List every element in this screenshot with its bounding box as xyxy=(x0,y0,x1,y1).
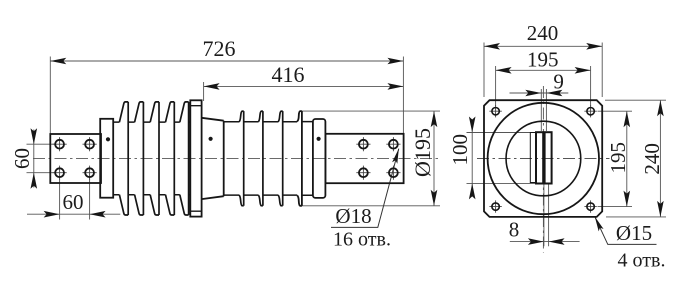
wire: 726 dimension line xyxy=(50,60,403,62)
wire: horizontal centerline (right view) xyxy=(477,158,610,160)
node: hole crosses left pad xyxy=(53,137,97,180)
node: arrows 195 right xyxy=(624,111,631,206)
wire: extension line right of 726/416 dims xyxy=(402,57,404,134)
svg-text:60: 60 xyxy=(10,148,34,169)
node: corner holes dia15 xyxy=(492,108,499,115)
resistor: right terminal pad (left view) xyxy=(325,134,403,183)
wire: horizontal 60 dimension line xyxy=(27,213,120,215)
svg-text:195: 195 xyxy=(527,48,559,72)
capacitor: shed L5 xyxy=(180,102,189,215)
node: hole circles left pad xyxy=(55,140,64,149)
wire: extension lines 9 dim xyxy=(541,89,546,131)
wire: extension line bottom of dia195 (left view) xyxy=(302,205,440,207)
svg-text:16 отв.: 16 отв. xyxy=(333,228,391,250)
svg-text:4 отв.: 4 отв. xyxy=(618,249,666,271)
capacitor: end disc dia195 xyxy=(297,111,302,206)
capacitor: shed L3 xyxy=(150,102,159,215)
wire: main centerline of bushing (left view) xyxy=(33,157,438,159)
wire: 195 top dimension line xyxy=(496,69,591,71)
node: arrow 416 right xyxy=(387,83,403,90)
wire: 240 top dimension line xyxy=(484,45,602,47)
svg-text:8: 8 xyxy=(509,217,520,241)
label: dia195 rotated xyxy=(410,128,435,177)
wire: 240 right dimension line xyxy=(659,100,661,217)
node: arrows 8 dim xyxy=(528,238,565,245)
capacitor: shed R3 xyxy=(278,111,283,206)
svg-text:100: 100 xyxy=(448,134,472,166)
wire: 8 dimension line xyxy=(510,241,580,243)
node: hole crosses right pad xyxy=(356,137,400,180)
resistor: bus bar left lamination xyxy=(536,132,543,183)
svg-text:726: 726 xyxy=(203,36,236,61)
capacitor: shed L2 xyxy=(135,102,144,215)
node: arrows 9 dim xyxy=(525,90,562,97)
wire: extension lines 100 dim xyxy=(467,133,537,184)
node: arrow 726 left xyxy=(50,58,66,65)
node: arrows 240 right xyxy=(657,100,664,217)
wire: extension line top of dia195 (left view) xyxy=(302,110,440,112)
node: arrow 416 left xyxy=(204,83,220,90)
wire: extension lines 195 top xyxy=(496,66,591,106)
resistor: thin pad behind bus bar xyxy=(530,133,536,183)
wire: core lines of right shed section xyxy=(224,122,313,196)
node: hole circles right pad xyxy=(359,140,368,149)
capacitor: shed R2 xyxy=(258,111,263,206)
svg-text:60: 60 xyxy=(63,190,84,214)
capacitor: outer flange circle xyxy=(488,103,599,214)
transistor: mounting flange xyxy=(190,100,201,216)
label: 100 rotated xyxy=(448,134,472,166)
capacitor: right collar xyxy=(313,119,326,198)
label: 240 right rotated xyxy=(640,143,664,175)
wire: vertical centerline (right view) xyxy=(542,86,544,253)
node: arrows 240 top xyxy=(484,43,602,50)
capacitor: left collar of insulator xyxy=(100,119,113,198)
svg-text:Ø18: Ø18 xyxy=(335,204,371,228)
svg-text:240: 240 xyxy=(527,21,559,45)
wire: vertical 60 dimension line xyxy=(33,130,35,188)
svg-text:195: 195 xyxy=(606,142,630,174)
wire: extension lines 8 dim xyxy=(544,184,549,246)
wire: 195 right dimension line xyxy=(626,111,628,206)
node: corner hole crosses xyxy=(489,105,596,213)
capacitor: shed L4 xyxy=(166,102,175,215)
label: 195 right rotated xyxy=(606,142,630,174)
node: arrow 726 right xyxy=(387,58,403,65)
svg-text:240: 240 xyxy=(640,143,664,175)
wire: extension lines 240 top xyxy=(484,43,602,98)
node: arrows 195 top xyxy=(496,67,591,74)
wire: extension lines 240 right xyxy=(605,100,666,217)
node: arrows vertical 60 xyxy=(31,128,38,189)
wire: extension lines of horizontal 60 dim xyxy=(60,179,90,220)
svg-text:Ø15: Ø15 xyxy=(616,221,652,245)
node: arrows 100 dim xyxy=(469,117,476,200)
capacitor: shed L1 xyxy=(119,102,128,215)
svg-text:Ø195: Ø195 xyxy=(410,128,435,177)
wire: 100 dimension line xyxy=(471,126,473,190)
wire: leader line of dia18 16 holes xyxy=(331,149,399,228)
wire: extension line left of 416 dim xyxy=(203,82,205,101)
wire: 9 dimension line xyxy=(510,92,569,94)
diode: cylinder section after flange xyxy=(202,118,224,199)
node: arrows horizontal 60 xyxy=(44,211,106,218)
node: arrow of dia18 leader xyxy=(392,148,401,164)
wire: leader of dia15 4 holes xyxy=(595,217,657,245)
node: arrows dia195 left view xyxy=(431,111,438,206)
wire: extension line left of 726 dim xyxy=(49,57,51,134)
wire: dia195 dimension line (left view) xyxy=(433,111,435,206)
wire: 416 dimension line xyxy=(204,85,404,87)
svg-text:416: 416 xyxy=(272,62,305,87)
resistor: left terminal pad (left view) xyxy=(50,134,101,183)
node: arrow of dia15 leader xyxy=(592,215,603,231)
svg-text:9: 9 xyxy=(553,70,564,94)
wire: extension lines of vertical 60 dim xyxy=(27,144,56,173)
capacitor: inner circle xyxy=(506,121,581,196)
label: 60 vertical xyxy=(10,148,34,169)
capacitor: shed R1 xyxy=(239,111,244,206)
resistor: square mounting plate 240x240 xyxy=(484,100,602,217)
resistor: bus bar right lamination xyxy=(545,132,552,183)
wire: extension lines 195 right xyxy=(598,111,633,206)
wire: core lines of left shed section xyxy=(113,122,190,195)
